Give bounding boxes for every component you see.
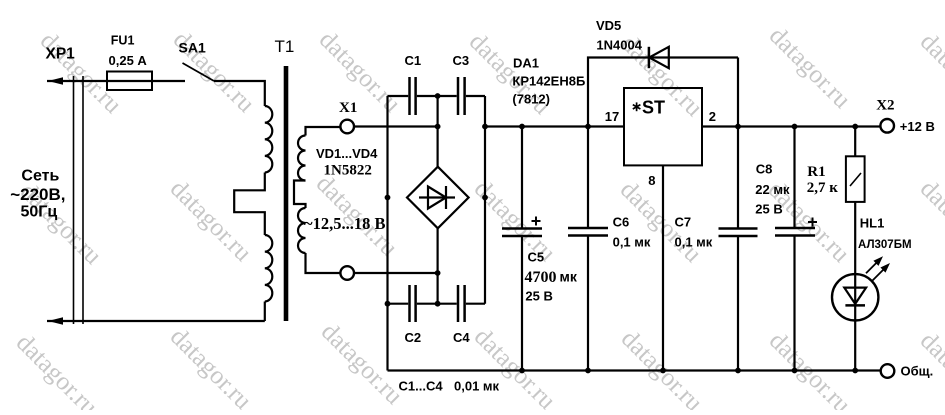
svg-text:C2: C2	[405, 330, 422, 345]
resistor R1	[846, 156, 865, 202]
svg-text:4700: 4700	[525, 269, 557, 286]
bridge internal diode cathode bar	[445, 186, 447, 209]
LED HL1 arrow shaft 2	[873, 270, 884, 281]
svg-text:C3: C3	[453, 53, 470, 68]
wire X1 top to bridge AC node	[354, 125, 438, 127]
wire through HL1	[854, 274, 856, 305]
junction plus rail at bridge	[482, 124, 488, 130]
junction C7 ground	[735, 368, 741, 374]
junction HL1 ground	[852, 368, 858, 374]
wire R1 to HL1	[854, 202, 856, 274]
junction snubber bottom row middle	[435, 301, 441, 307]
junction C5 ground	[519, 368, 525, 374]
svg-text:2,7 к: 2,7 к	[807, 180, 839, 196]
terminal X2	[880, 119, 894, 133]
terminal X1 bottom	[340, 266, 354, 280]
XP1 plug arrow top	[48, 77, 63, 85]
svg-text:0,1 мк: 0,1 мк	[675, 235, 713, 250]
wire secondary top lead to X1	[306, 127, 341, 136]
svg-text:VD1...VD4: VD1...VD4	[316, 146, 378, 161]
LED HL1 arrow shaft 1	[866, 263, 877, 274]
XP1 plug boundary line 2	[82, 76, 84, 324]
svg-text:0,25 А: 0,25 А	[109, 53, 148, 68]
transformer T1 primary winding upper half	[265, 106, 273, 172]
wire C8 top	[793, 127, 795, 228]
svg-text:SA1: SA1	[179, 40, 206, 56]
capacitor C3	[458, 77, 465, 115]
svg-text:ST: ST	[642, 98, 665, 118]
svg-text:КР142ЕН8Б: КР142ЕН8Б	[512, 74, 585, 89]
wire C6 top	[587, 127, 589, 228]
wire HL1 to ground	[854, 305, 856, 370]
svg-text:R1: R1	[807, 164, 825, 180]
transformer T1 primary winding middle jog	[234, 173, 265, 236]
wire secondary bottom lead to X1	[306, 253, 341, 273]
svg-text:25 В: 25 В	[525, 289, 552, 304]
junction bridge minus corner	[385, 195, 391, 201]
capacitor C2	[410, 285, 416, 322]
fuse FU1	[107, 72, 152, 91]
svg-text:Сеть: Сеть	[21, 168, 59, 185]
svg-text:C8: C8	[756, 162, 773, 177]
svg-text:C4: C4	[453, 330, 470, 345]
wire mains top (XP1 to FU1)	[47, 80, 107, 82]
LED HL1 circle	[832, 274, 878, 320]
svg-text:25 В: 25 В	[755, 202, 782, 217]
wire snubber row bottom middle	[417, 303, 457, 305]
svg-text:(7812): (7812)	[512, 92, 550, 107]
wire C7 bottom	[737, 237, 739, 371]
wire C5 bottom	[521, 237, 523, 371]
terminal X1 top	[340, 120, 354, 134]
svg-text:~220В,: ~220В,	[10, 185, 65, 204]
svg-text:2: 2	[709, 109, 716, 124]
junction AC bottom rail	[435, 270, 441, 276]
wire snubber row top right	[466, 95, 485, 97]
wire SA1 to T1 primary top	[214, 81, 265, 106]
capacitor C7	[719, 229, 758, 237]
C5 polarity plus	[532, 220, 541, 222]
junction C8 ground	[792, 368, 798, 374]
transformer T1 core	[284, 66, 289, 321]
wire snubber row top middle	[417, 95, 457, 97]
wire output rail DA1 to X2	[702, 125, 880, 127]
LED HL1 arrowhead 1	[873, 256, 883, 266]
wire bridge minus vertical (left)	[386, 96, 388, 371]
wire rail to R1	[854, 127, 856, 157]
LED HL1 arrowhead 2	[880, 263, 890, 273]
transformer T1 secondary winding lower half	[298, 208, 306, 253]
switch SA1 blade	[183, 63, 215, 81]
wire plus rail bridge to DA1 input	[485, 125, 624, 127]
svg-text:0,1 мк: 0,1 мк	[613, 235, 651, 250]
transformer T1 secondary winding middle jog	[294, 181, 306, 209]
diode VD5 triangle	[649, 47, 669, 68]
wire DA1 pin 8 to ground	[662, 165, 664, 370]
svg-text:X2: X2	[876, 97, 894, 113]
wire ground rail	[388, 369, 881, 371]
regulator marking asterisk	[633, 102, 641, 111]
junction C5 top	[519, 124, 525, 130]
svg-text:FU1: FU1	[111, 34, 135, 48]
svg-text:50Гц: 50Гц	[21, 204, 58, 221]
wire snubber row top left	[388, 95, 409, 97]
junction snubber bottom row left	[385, 301, 391, 307]
svg-text:Общ.: Общ.	[901, 364, 934, 379]
svg-text:0,01 мк: 0,01 мк	[454, 379, 500, 394]
svg-text:мк: мк	[560, 269, 578, 285]
wire VD5 bypass left and top	[588, 58, 738, 127]
wire C8 bottom	[793, 236, 795, 371]
wire bridge plus vertical (right)	[484, 96, 486, 304]
bridge internal diode triangle	[428, 187, 446, 209]
LED HL1 cathode bar	[845, 304, 865, 307]
junction C8 top	[792, 124, 798, 130]
capacitor C5	[502, 229, 542, 237]
wire VD5 bypass right	[737, 58, 739, 127]
wire bridge AC bottom vertical	[437, 228, 439, 303]
diode VD5 cathode bar	[648, 47, 651, 68]
svg-text:VD5: VD5	[596, 18, 621, 33]
svg-text:1N5822: 1N5822	[324, 163, 372, 179]
svg-text:C7: C7	[675, 214, 692, 229]
capacitor C4	[458, 285, 465, 322]
svg-text:1N4004: 1N4004	[596, 38, 642, 53]
svg-text:8: 8	[648, 173, 655, 188]
wire bridge AC top vertical	[437, 96, 439, 167]
capacitor C8	[775, 228, 815, 236]
LED HL1 diode triangle	[844, 288, 866, 304]
wire primary bottom lead	[264, 302, 266, 322]
svg-text:22 мк: 22 мк	[755, 182, 790, 197]
svg-text:HL1: HL1	[860, 216, 885, 231]
svg-text:DA1: DA1	[513, 56, 539, 71]
junction C6 ground	[585, 368, 591, 374]
junction snubber top row	[435, 93, 441, 99]
wire FU1 to SA1	[152, 80, 185, 82]
wire mains bottom (T1 primary bottom to XP1)	[47, 320, 265, 322]
junction VD5/C7 top	[735, 124, 741, 130]
junction bridge plus corner	[482, 195, 488, 201]
capacitor C1	[410, 77, 416, 115]
junction pin8 ground	[660, 368, 666, 374]
svg-text:X1: X1	[339, 100, 357, 116]
wire C5 top	[521, 127, 523, 229]
svg-text:C1: C1	[405, 53, 422, 68]
transformer T1 secondary winding upper half	[298, 136, 306, 181]
capacitor C6	[568, 228, 608, 236]
junction AC top rail	[435, 124, 441, 130]
svg-text:~12,5...18 В: ~12,5...18 В	[304, 214, 385, 233]
junction VD5/C6 top	[585, 124, 591, 130]
svg-text:C1...C4: C1...C4	[399, 379, 444, 394]
svg-text:T1: T1	[275, 37, 295, 56]
bridge internal diode wire	[419, 196, 455, 198]
terminal Obshch (common)	[881, 364, 895, 378]
wire snubber row bottom left	[388, 303, 409, 305]
junction R1 top	[852, 124, 858, 130]
wire C7 top	[737, 127, 739, 229]
svg-text:XP1: XP1	[46, 46, 76, 63]
wire snubber row bottom right	[466, 303, 485, 305]
svg-text:17: 17	[605, 109, 619, 124]
XP1 plug arrow bottom	[48, 317, 63, 325]
C8 polarity plus	[808, 221, 817, 223]
regulator DA1 box	[624, 88, 702, 165]
svg-text:АЛ307БМ: АЛ307БМ	[858, 239, 912, 251]
svg-text:C6: C6	[613, 214, 630, 229]
wire C6 bottom	[587, 236, 589, 371]
bridge rectifier VD1...VD4 diamond	[407, 167, 469, 229]
svg-text:C5: C5	[528, 250, 545, 265]
wire X1 bottom to bridge AC node	[354, 272, 438, 274]
transformer T1 primary winding lower half	[265, 235, 273, 301]
XP1 plug boundary line 1	[73, 76, 75, 324]
svg-text:+12 В: +12 В	[900, 119, 935, 134]
